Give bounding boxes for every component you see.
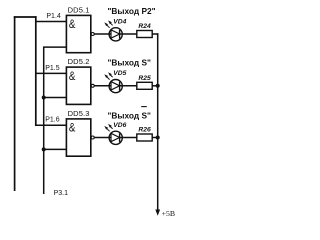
svg-text:"Выход S": "Выход S" xyxy=(108,58,151,68)
svg-text:R25: R25 xyxy=(138,75,151,82)
svg-text:R24: R24 xyxy=(138,23,151,30)
junction dot at DD5.3 branch xyxy=(42,147,46,151)
svg-text:DD5.3: DD5.3 xyxy=(68,109,90,118)
wire P1.4 xyxy=(35,21,66,23)
LED VD6 circle xyxy=(109,131,122,144)
gate DD5.1 output bubble xyxy=(91,33,94,36)
LED VD4 circle xyxy=(109,28,122,41)
gate DD5.3 box xyxy=(66,119,90,156)
wire P3.1 vertical with top branch to DD5.1 input xyxy=(44,47,67,194)
junction dot at DD5.2 branch xyxy=(42,96,46,100)
svg-text:&: & xyxy=(69,18,76,31)
LED VD4 triangle xyxy=(111,30,120,38)
LED VD6 emission arrows xyxy=(107,126,113,131)
svg-text:VD6: VD6 xyxy=(113,122,126,129)
connector X1 right edge xyxy=(35,16,37,126)
svg-text:P1.4: P1.4 xyxy=(46,13,61,20)
svg-text:"Выход Р2": "Выход Р2" xyxy=(108,6,156,16)
resistor R25 xyxy=(137,82,152,89)
svg-text:P3.1: P3.1 xyxy=(54,190,69,197)
wire DD5.2 output to R25 xyxy=(94,85,137,87)
junction dot rail row2 xyxy=(156,84,160,88)
LED VD5 triangle xyxy=(111,82,120,90)
gate DD5.2 box xyxy=(66,67,90,104)
wire branch to DD5.3 input xyxy=(44,148,67,150)
gate DD5.1 box xyxy=(66,15,90,52)
wire R26 to +5V rail xyxy=(152,137,158,139)
LED VD5 circle xyxy=(109,80,122,93)
svg-text:VD5: VD5 xyxy=(113,70,126,77)
junction dot rail row3 xyxy=(156,136,160,140)
svg-text:P1.5: P1.5 xyxy=(45,65,60,72)
wire R24 to +5V rail xyxy=(152,34,158,36)
svg-text:&: & xyxy=(69,122,76,135)
svg-text:VD4: VD4 xyxy=(113,18,126,25)
svg-text:P1.6: P1.6 xyxy=(45,116,60,123)
connector X1 top edge xyxy=(14,16,37,18)
+5V arrowhead xyxy=(155,210,160,216)
connector X1 left edge xyxy=(14,16,16,191)
svg-text:DD5.1: DD5.1 xyxy=(68,5,90,14)
LED VD6 cathode bar xyxy=(119,133,121,142)
LED VD5 cathode bar xyxy=(119,82,121,91)
+5V rail xyxy=(157,33,159,210)
wire DD5.3 output to R26 xyxy=(94,137,137,139)
wire branch to DD5.2 input xyxy=(44,97,67,99)
resistor R26 xyxy=(137,134,152,141)
LED VD4 emission arrows xyxy=(107,23,113,28)
svg-text:+5В: +5В xyxy=(162,209,176,218)
wire P1.6 xyxy=(35,124,66,126)
gate DD5.2 output bubble xyxy=(91,84,94,87)
svg-text:&: & xyxy=(69,70,76,83)
wire DD5.1 output to R24 xyxy=(94,33,137,35)
gate DD5.3 output bubble xyxy=(91,136,94,139)
LED VD4 cathode bar xyxy=(119,30,121,39)
overline on S of third label xyxy=(141,106,147,108)
svg-text:DD5.2: DD5.2 xyxy=(68,57,90,66)
svg-text:"Выход S": "Выход S" xyxy=(108,111,151,121)
resistor R24 xyxy=(137,31,152,38)
svg-text:R26: R26 xyxy=(138,127,151,134)
LED VD6 triangle xyxy=(111,133,120,141)
wire P1.5 xyxy=(35,72,66,74)
LED VD5 emission arrows xyxy=(107,75,113,80)
wire R25 to +5V rail xyxy=(152,85,158,87)
